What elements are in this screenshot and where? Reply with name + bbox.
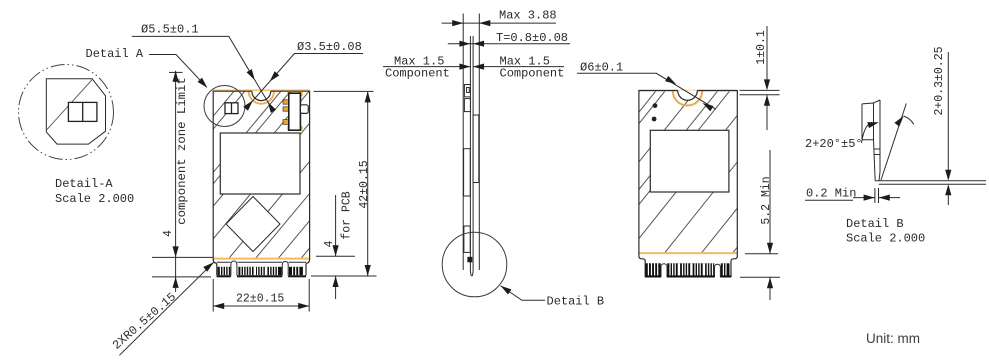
leader Detail B [501,286,545,301]
svg-text:Scale 2.000: Scale 2.000 [55,192,134,206]
detail A hatch line [46,80,92,131]
svg-text:2+0.3±0.25: 2+0.3±0.25 [933,46,946,115]
component zone limit label + dim (left) [152,71,213,292]
svg-text:1±0.1: 1±0.1 [755,30,768,65]
gold finger group 1 [218,267,231,275]
side connector plating block [467,257,472,263]
detail B angle arc [862,124,870,143]
svg-text:Detail B: Detail B [846,217,904,231]
svg-text:42±0.15: 42±0.15 [358,160,371,208]
diamond component view1 [226,197,280,252]
svg-text:Ø5.5±0.1: Ø5.5±0.1 [141,23,199,37]
chip U1 view1 [220,133,300,194]
chip U2 view2 [650,130,729,192]
svg-text:Ø6±0.1: Ø6±0.1 [580,61,623,75]
dim 42±0.15 [311,91,377,276]
bottom edge bars [217,275,231,277]
gold finger groups [645,263,661,275]
svg-text:Unit: mm: Unit: mm [866,331,920,346]
svg-text:22±0.15: 22±0.15 [236,293,284,306]
gold finger group 3 [289,267,303,275]
dim 4 for PCB (right) [316,195,355,299]
svg-text:Component: Component [385,67,450,81]
svg-text:0.2 Min: 0.2 Min [806,187,856,201]
detail B 20 deg line [881,104,906,181]
svg-text:Detail A: Detail A [86,47,144,61]
side components left [464,85,470,97]
detail A component [68,102,97,121]
component in detail A circle [225,103,238,114]
board outline view2 [639,91,737,278]
gold finger group 2 [238,267,281,275]
key notch right [282,262,288,276]
detail B seating plane lines [879,181,986,185]
side component left long [464,149,471,196]
detail A indicator circle [204,86,245,127]
detail A corner outline [46,79,105,144]
svg-text:Component: Component [500,67,565,81]
orange component zone line view2 [639,252,737,254]
orange notch arc view2 (6 dia zone) [673,91,702,106]
svg-text:Max 3.88: Max 3.88 [499,8,557,22]
svg-text:component zone Limit: component zone Limit [175,77,189,225]
detail B indicator circle [442,232,507,297]
orange notch arc view1 (5.5 dia zone) [249,91,274,104]
orange top edge line view1 [213,89,310,91]
pcb side profile [470,36,473,276]
board outline view1 [213,91,309,275]
hatch view2 [526,91,862,253]
detail B pcb edge shape [862,100,880,181]
band top line segments [217,261,306,263]
dim 1±0.1 view2 [740,26,780,130]
svg-text:5.2 Min: 5.2 Min [760,176,773,224]
svg-text:for PCB: for PCB [341,191,354,239]
orange component zone line view1 [213,258,310,260]
detail A phantom circle [19,65,114,160]
svg-text:T=0.8±0.08: T=0.8±0.08 [496,31,568,45]
orange top edge view2 [639,90,737,92]
connector band view1 [217,261,306,277]
fiducial dots view2 [653,103,658,108]
finger dividers [220,267,298,275]
hatch view1 [95,91,441,258]
component envelope lines [463,14,479,271]
svg-text:4: 4 [162,230,175,237]
dim 5.2 Min view2 [740,150,780,300]
svg-text:2XR0.5±0.15: 2XR0.5±0.15 [110,290,179,353]
svg-text:Scale 2.000: Scale 2.000 [846,232,925,246]
dim 22±0.15 [213,279,309,312]
bottom edge bars view2 [645,275,661,277]
key notch left [231,261,237,276]
notch semicircle view1 [252,91,271,100]
leader 2XR0.5±0.15 [119,262,213,355]
svg-text:Detail B: Detail B [547,295,605,309]
side component right tall [473,115,479,183]
svg-text:Detail-A: Detail-A [55,177,113,191]
svg-text:2+20°±5°: 2+20°±5° [805,137,863,151]
svg-text:4: 4 [323,240,336,247]
side component left lower [464,226,470,252]
connector band view2 [645,263,731,277]
transistor component top-right view1 [283,92,308,131]
svg-text:Ø3.5±0.08: Ø3.5±0.08 [297,40,362,54]
key notch ears view2 [661,264,667,278]
notch semicircle view2 [678,91,698,101]
dim 2+0.3±0.25 [947,52,949,205]
